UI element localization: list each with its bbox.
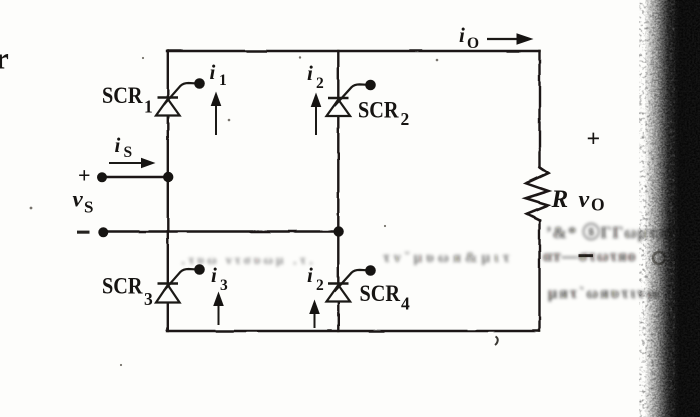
wire: source + terminal to bridge node	[100, 176, 168, 178]
svg-text:+: +	[587, 127, 601, 153]
svg-text:S: S	[84, 198, 93, 217]
svg-text:S: S	[124, 144, 133, 161]
wire: bottom bus (lower rail)	[167, 330, 540, 332]
wire: right branch upper (top bus to resistor)	[538, 51, 540, 167]
thyristor SCR1	[156, 78, 205, 115]
svg-text:SCR: SCR	[358, 98, 399, 123]
label iS	[115, 133, 133, 161]
thyristor SCR4	[327, 265, 376, 301]
wire: middle branch middle (SCR2 anode to SCR4 cathode)	[337, 116, 339, 284]
svg-text:2: 2	[316, 75, 324, 92]
svg-text:O: O	[591, 195, 605, 215]
current arrow iS (source current)	[109, 158, 156, 169]
label SCR2	[358, 98, 409, 130]
text fragment: cropped letter r at page edge	[0, 41, 9, 76]
svg-text:αт—στωτяо: αт—στωτяо	[543, 248, 637, 265]
label SCR3	[102, 274, 153, 310]
label SCR4	[360, 281, 411, 314]
svg-text:1: 1	[219, 72, 227, 89]
svg-text:SCR: SCR	[102, 83, 143, 108]
label: output − polarity	[579, 254, 594, 257]
label iO	[459, 23, 479, 52]
svg-text:τνˇμυωя&μιτ: τνˇμυωя&μιτ	[383, 250, 514, 266]
thyristor SCR2	[327, 80, 376, 116]
label R	[551, 186, 569, 213]
wire: middle branch bottom (SCR4 anode to bottom bus)	[337, 302, 339, 331]
wire: left branch top (bus to SCR1 cathode)	[167, 51, 169, 98]
svg-text:R: R	[551, 186, 569, 213]
wire: right branch lower (resistor to bottom bus)	[538, 220, 540, 331]
svg-text:4: 4	[401, 294, 410, 314]
node: source − terminal	[98, 227, 108, 237]
label SCR1	[102, 83, 153, 117]
svg-text:2: 2	[401, 109, 410, 129]
current arrow iO (output current)	[487, 33, 534, 45]
svg-text:3: 3	[220, 277, 228, 294]
label i2 (lower, at SCR4)	[307, 263, 324, 294]
svg-text:v: v	[579, 187, 590, 213]
wire: left branch bottom (SCR3 anode to bottom bus)	[167, 303, 169, 332]
label i3	[211, 263, 228, 294]
label: source − polarity	[77, 231, 90, 234]
current arrow i1	[211, 92, 222, 136]
label i2 (upper)	[307, 61, 324, 92]
svg-text:i: i	[210, 60, 216, 84]
label: output + polarity	[587, 127, 601, 153]
svg-text:3: 3	[144, 289, 153, 309]
label i1	[210, 60, 227, 89]
svg-text:+: +	[78, 163, 91, 188]
wire: top bus (upper rail)	[167, 50, 540, 52]
svg-text:i: i	[307, 61, 313, 85]
junction: + wire with left branch	[163, 172, 173, 182]
wire: middle branch top (bus to SCR2 cathode)	[337, 51, 339, 98]
label: source + polarity	[78, 163, 91, 188]
thyristor SCR3	[156, 264, 205, 302]
svg-text:O: O	[467, 35, 479, 52]
label: output voltage vO	[579, 187, 605, 215]
wire: source − terminal to bridge node	[102, 230, 338, 232]
resistor R (zigzag)	[526, 167, 549, 220]
svg-text:i: i	[459, 23, 465, 47]
svg-text:1: 1	[144, 97, 153, 117]
wire: left branch middle (SCR1 anode to SCR3 cathode)	[167, 116, 169, 284]
node: source + terminal	[97, 172, 107, 182]
svg-text:r: r	[0, 41, 9, 76]
svg-text:SCR: SCR	[360, 281, 401, 306]
label: source voltage vS	[73, 187, 94, 217]
svg-text:SCR: SCR	[102, 274, 143, 299]
svg-text:i: i	[115, 133, 121, 157]
svg-text:v: v	[73, 187, 84, 212]
current arrow i2 (lower, at SCR4)	[309, 300, 320, 329]
svg-text:2: 2	[316, 277, 324, 294]
junction: − wire with middle branch	[333, 226, 343, 236]
svg-text:․τυω ντσυωμ ․τ․: ․τυω ντσυωμ ․τ․	[181, 252, 316, 267]
current arrow i2 (upper)	[311, 93, 322, 136]
current arrow i3	[213, 292, 224, 326]
